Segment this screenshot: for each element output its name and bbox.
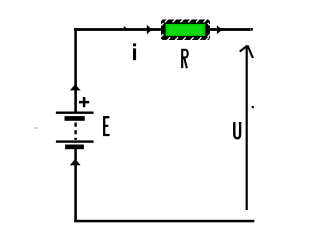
current arrow right (after resistor) (217, 25, 222, 34)
voltage arrow U (240, 46, 253, 211)
wire top (74, 28, 250, 31)
wire bottom (74, 220, 254, 223)
resistor R (161, 19, 211, 40)
current arrow up (below battery) (70, 159, 81, 165)
terminal dot (top right wire end) (251, 28, 253, 31)
label R (182, 50, 188, 68)
current arrow right (before resistor) (147, 25, 152, 35)
battery E (56, 112, 94, 150)
wire left lower (74, 149, 77, 223)
label E (104, 117, 109, 135)
wire left upper (74, 28, 77, 113)
current arrow up (above battery) (70, 84, 81, 90)
wire battery dashed link (74, 123, 76, 141)
label i (133, 43, 136, 60)
label U (234, 122, 240, 138)
battery polarity + (79, 97, 89, 107)
